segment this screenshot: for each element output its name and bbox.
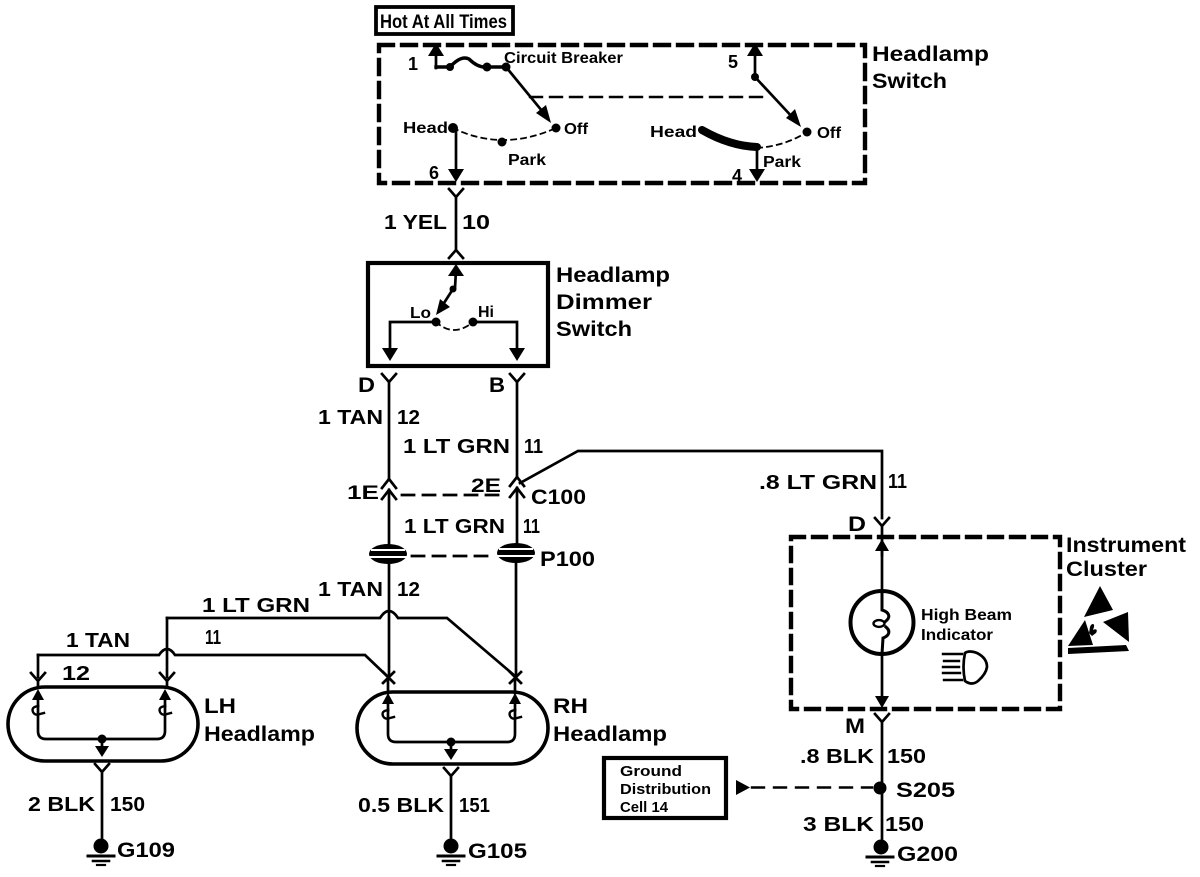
svg-text:.8 BLK: .8 BLK xyxy=(800,746,875,768)
label 1 LT GRN 11 xyxy=(403,436,543,458)
cluster output arrow down xyxy=(875,654,889,708)
label Headlamp Switch xyxy=(872,43,989,93)
dashed arc Head-Park-Off xyxy=(453,128,556,140)
pin 5 arrow up xyxy=(747,43,763,81)
headlamp switch box (dashed) xyxy=(379,45,865,183)
label LH Headlamp xyxy=(204,695,315,746)
wiper thick arc (Head position) xyxy=(702,130,757,147)
dimmer leg to B xyxy=(473,322,525,361)
wire riser to LH low beam xyxy=(37,655,40,677)
svg-text:12: 12 xyxy=(62,663,90,685)
svg-text:150: 150 xyxy=(110,794,145,816)
LH pin chevron high xyxy=(160,673,174,687)
label 3 BLK 150 xyxy=(803,814,924,836)
contact Head (left half) xyxy=(403,120,458,137)
wire LT GRN horizontal to LH (with hop) xyxy=(167,611,515,676)
label Instrument Cluster xyxy=(1066,534,1186,581)
label 0.5 BLK 151 xyxy=(358,795,490,817)
switch blade 1 (to Off) xyxy=(506,67,551,123)
svg-text:1 LT GRN: 1 LT GRN xyxy=(202,595,310,617)
dashed arc Lo-Hi xyxy=(436,322,473,330)
svg-text:150: 150 xyxy=(885,814,924,836)
svg-text:B: B xyxy=(489,374,505,397)
wire 1 LT GRN (P100 down to RH) xyxy=(515,563,518,676)
headlamp dimmer switch box U2 xyxy=(368,263,548,366)
pin 1 arrow up xyxy=(428,43,444,68)
wire 2E to P100 xyxy=(516,488,519,545)
label RH Headlamp xyxy=(553,695,667,746)
ESD symbol xyxy=(1068,586,1129,654)
svg-text:S205: S205 xyxy=(896,779,955,802)
ground distribution arrow xyxy=(736,780,750,795)
svg-text:M: M xyxy=(845,715,865,738)
svg-text:1E: 1E xyxy=(347,483,379,504)
LH ground pin chevron xyxy=(95,764,109,772)
svg-text:Instrument: Instrument xyxy=(1066,534,1186,557)
wire riser to LH high beam xyxy=(166,618,169,677)
high beam icon xyxy=(943,652,987,684)
RH ground pin chevron xyxy=(444,768,458,776)
wire 0.5 BLK 151 xyxy=(450,776,453,840)
svg-text:10: 10 xyxy=(462,212,490,234)
svg-text:P100: P100 xyxy=(540,548,595,571)
svg-text:LH: LH xyxy=(204,695,236,718)
svg-text:.8 LT GRN: .8 LT GRN xyxy=(759,472,877,494)
node Hot At All Times xyxy=(376,7,513,34)
svg-text:Hot At All Times: Hot At All Times xyxy=(380,12,507,33)
svg-text:5: 5 xyxy=(728,52,738,72)
svg-text:1 LT GRN: 1 LT GRN xyxy=(404,516,505,538)
svg-text:11: 11 xyxy=(523,516,540,538)
dimmer leg to D xyxy=(382,322,436,361)
ground G105 xyxy=(438,839,527,866)
pin D chevron xyxy=(358,374,396,397)
svg-text:Park: Park xyxy=(508,152,546,169)
svg-text:Head: Head xyxy=(403,120,448,137)
pin 4 arrow down xyxy=(732,148,765,186)
svg-text:Headlamp: Headlamp xyxy=(872,43,989,66)
svg-text:150: 150 xyxy=(887,746,926,768)
svg-text:0.5 BLK: 0.5 BLK xyxy=(358,795,445,817)
svg-text:Headlamp: Headlamp xyxy=(204,723,315,746)
label High Beam Indicator xyxy=(921,607,1012,644)
svg-text:Indicator: Indicator xyxy=(921,627,993,644)
label 1 LT GRN 11 (below C100) xyxy=(404,516,540,538)
svg-text:Switch: Switch xyxy=(556,318,632,341)
wire 1 YEL 10 xyxy=(455,197,458,250)
wire into lamp xyxy=(881,551,884,592)
wire 1 TAN 12 (P100 down) xyxy=(388,564,391,676)
dimmer blade to Lo xyxy=(436,289,453,315)
svg-text:1: 1 xyxy=(408,54,418,74)
svg-text:G200: G200 xyxy=(897,843,958,866)
svg-text:Cell 14: Cell 14 xyxy=(620,800,668,816)
instrument cluster box (dashed) xyxy=(791,537,1060,709)
cluster input arrow up xyxy=(875,526,889,555)
RH pin chevron low xyxy=(383,672,394,693)
svg-text:Ground: Ground xyxy=(620,764,682,780)
svg-text:151: 151 xyxy=(459,795,490,817)
grommet P100 left xyxy=(369,544,407,564)
svg-text:1 YEL: 1 YEL xyxy=(384,212,447,234)
svg-text:Park: Park xyxy=(763,154,801,171)
wire .8 LT GRN branch to instrument cluster xyxy=(520,451,882,518)
svg-text:11: 11 xyxy=(524,436,543,458)
pin D chevron (cluster) xyxy=(848,513,889,536)
label 2 BLK 150 xyxy=(28,794,145,816)
connector C100 dashed link xyxy=(402,494,505,497)
svg-text:G109: G109 xyxy=(117,839,175,862)
svg-text:11: 11 xyxy=(205,627,221,649)
svg-text:12: 12 xyxy=(397,407,420,429)
svg-text:High Beam: High Beam xyxy=(921,607,1012,624)
pin M chevron xyxy=(845,714,889,738)
LH pin chevron low xyxy=(31,673,45,687)
label .8 BLK 150 xyxy=(800,746,926,768)
contact Lo xyxy=(410,305,441,327)
svg-text:D: D xyxy=(848,513,866,536)
svg-text:Off: Off xyxy=(817,125,842,142)
ground distribution box xyxy=(604,758,726,818)
svg-text:RH: RH xyxy=(553,695,588,718)
wire TAN horizontal to LH (with hop) xyxy=(38,649,388,677)
svg-text:Headlamp: Headlamp xyxy=(556,264,670,287)
connector 2E half xyxy=(471,476,524,497)
svg-text:Headlamp: Headlamp xyxy=(553,723,667,746)
dimmer input arrow up xyxy=(448,264,464,293)
label .8 LT GRN 11 xyxy=(759,471,907,494)
svg-text:6: 6 xyxy=(429,163,439,183)
svg-text:Cluster: Cluster xyxy=(1066,558,1147,581)
svg-text:3 BLK: 3 BLK xyxy=(803,814,875,836)
label 1 TAN 12 xyxy=(318,579,420,601)
svg-text:Lo: Lo xyxy=(410,305,431,322)
svg-text:Head: Head xyxy=(650,124,697,141)
svg-text:1 TAN: 1 TAN xyxy=(318,579,383,601)
contact Hi xyxy=(469,304,495,327)
svg-text:1 LT GRN: 1 LT GRN xyxy=(403,436,510,458)
ground G200 xyxy=(867,840,958,867)
svg-text:11: 11 xyxy=(888,471,907,493)
connector chevron above dimmer switch xyxy=(449,250,463,258)
label 1 LT GRN 11 (headlamp feed) xyxy=(202,595,310,649)
svg-text:C100: C100 xyxy=(531,486,586,509)
switch blade 2 (to Off) xyxy=(755,77,801,127)
wire 1E to P100 xyxy=(388,490,391,545)
svg-text:G105: G105 xyxy=(468,840,527,863)
indicator lamp circle xyxy=(851,591,914,654)
mechanical link dashed xyxy=(530,96,770,98)
LH headlamp lamp xyxy=(8,687,198,761)
label 1 TAN 12 (headlamp feed) xyxy=(62,630,130,685)
wire 3 BLK 150 xyxy=(881,788,884,840)
svg-text:1 TAN: 1 TAN xyxy=(318,407,383,429)
grommet P100 right xyxy=(497,543,535,563)
wire 1 TAN 12 (D to 1E) xyxy=(388,382,391,478)
wire 1 LT GRN 11 (B to 2E) xyxy=(516,382,519,476)
ground G109 xyxy=(88,839,175,866)
contact Off (left half) xyxy=(552,124,561,133)
svg-text:Switch: Switch xyxy=(872,70,947,93)
svg-text:2E: 2E xyxy=(471,476,501,497)
svg-text:1 TAN: 1 TAN xyxy=(66,630,130,652)
connector chevron below pin 6 xyxy=(449,189,463,197)
label Headlamp Dimmer Switch xyxy=(556,264,670,341)
svg-text:12: 12 xyxy=(397,579,420,601)
contact Off (right half) xyxy=(803,128,812,137)
RH headlamp lamp xyxy=(357,692,548,764)
wire .8 BLK 150 xyxy=(881,722,884,788)
svg-text:Circuit Breaker: Circuit Breaker xyxy=(504,50,623,67)
svg-text:Off: Off xyxy=(564,121,589,138)
splice S205 xyxy=(874,779,956,802)
dashed wire to S205 xyxy=(752,786,872,788)
dashed arc to Off (right half) xyxy=(757,132,807,148)
circuit breaker CB xyxy=(436,58,511,72)
svg-text:D: D xyxy=(358,374,375,397)
wire 2 BLK 150 xyxy=(101,772,104,840)
label 1 YEL 10 xyxy=(384,212,490,234)
RH pin chevron high xyxy=(510,672,521,693)
svg-text:Dimmer: Dimmer xyxy=(556,291,652,314)
svg-text:2 BLK: 2 BLK xyxy=(28,794,96,816)
P100 dashed link xyxy=(412,555,492,558)
svg-text:4: 4 xyxy=(732,166,742,186)
svg-text:Distribution: Distribution xyxy=(620,782,711,798)
label 1 TAN 12 xyxy=(318,407,420,429)
contact Park (left half) xyxy=(498,138,507,147)
pin 6 arrow down xyxy=(429,132,464,183)
svg-text:Hi: Hi xyxy=(478,304,494,321)
pin B chevron xyxy=(489,374,524,397)
connector 1E half xyxy=(347,479,396,504)
lamp filament xyxy=(874,592,889,654)
